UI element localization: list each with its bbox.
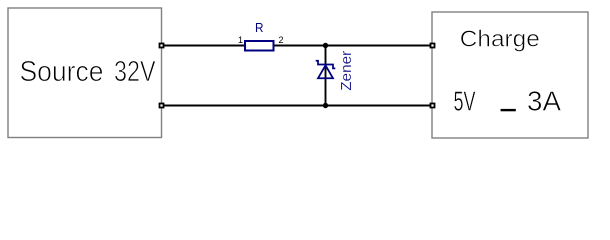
label _ (dash between 5V and 3A)	[501, 109, 516, 111]
wire top (source pin to charge pin)	[162, 45, 433, 47]
svg-text:Source: Source	[20, 56, 104, 88]
resistor R body	[245, 41, 274, 51]
zener diode D1 cathode bar	[316, 61, 336, 69]
junction top node	[323, 43, 328, 48]
svg-text:5V: 5V	[454, 85, 476, 116]
junction bottom node	[323, 103, 328, 108]
pin source bottom	[160, 104, 164, 108]
zener diode D1 triangle (anode, pointing up)	[318, 65, 333, 78]
load block "Charge"	[432, 12, 588, 138]
svg-text:Zener: Zener	[338, 51, 355, 91]
wire bottom (source pin to charge pin)	[162, 105, 433, 107]
svg-text:3A: 3A	[527, 85, 562, 116]
pin charge top	[431, 44, 435, 48]
source block "Source 32V"	[8, 8, 162, 138]
svg-text:2: 2	[279, 35, 284, 45]
svg-text:32V: 32V	[114, 56, 156, 88]
svg-text:1: 1	[238, 35, 243, 45]
svg-text:R: R	[255, 20, 264, 35]
pin source top	[160, 44, 164, 48]
pin charge bottom	[431, 104, 435, 108]
wire vertical (zener branch)	[325, 46, 327, 106]
svg-text:Charge: Charge	[460, 26, 540, 52]
